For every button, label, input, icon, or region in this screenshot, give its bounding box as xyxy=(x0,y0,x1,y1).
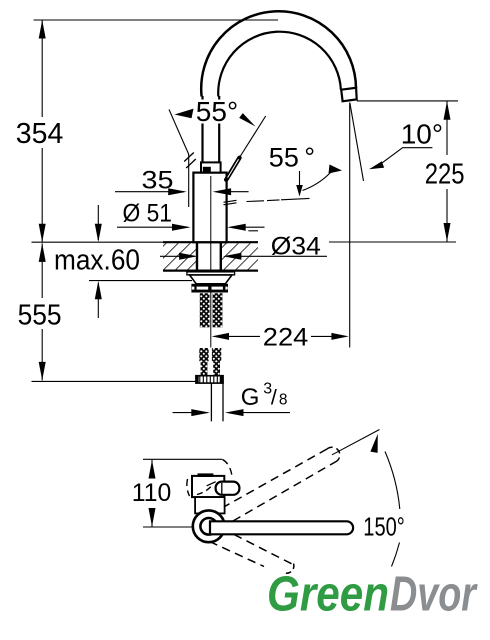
dimension 225 top extension line xyxy=(357,100,458,102)
counter deck top line xyxy=(163,241,258,243)
arrow 555 top xyxy=(39,243,46,262)
150-degree limit line xyxy=(332,430,380,455)
deck reference line left thin xyxy=(32,241,164,243)
svg-text:110: 110 xyxy=(132,479,172,507)
dimension G3/8 left xyxy=(173,412,208,414)
angle 55 (spout) down leader xyxy=(299,171,301,186)
angle 55 (handle) left arrowhead xyxy=(175,109,194,119)
svg-text:224: 224 xyxy=(263,323,309,351)
braided hose lower left xyxy=(199,348,208,361)
braided hose upper right xyxy=(213,293,223,327)
svg-text:Dvor: Dvor xyxy=(390,568,478,622)
svg-text:10°: 10° xyxy=(401,119,443,150)
plan spout bar xyxy=(210,521,353,534)
dimension diameter 34 line left xyxy=(160,255,195,257)
collar black mark xyxy=(203,167,211,172)
dimension G3/8 right xyxy=(225,409,244,416)
plan base circle xyxy=(193,510,225,542)
outlet 10-degree tilted line xyxy=(350,103,364,181)
hose connector nut xyxy=(196,376,223,383)
angle 55 (handle) right arrowhead xyxy=(239,113,255,126)
dimension 354 line xyxy=(41,20,43,117)
svg-text:55°: 55° xyxy=(196,96,238,127)
angle 55 (handle) left leader line xyxy=(169,110,189,155)
dimension 225 line xyxy=(446,101,448,155)
housing black top bar xyxy=(198,473,214,477)
svg-text:555: 555 xyxy=(18,300,62,332)
arrow 354 top xyxy=(39,20,46,39)
counter deck bottom line xyxy=(163,270,258,272)
arrow 555 bottom xyxy=(39,362,46,381)
spout outer arc xyxy=(201,11,356,96)
body centerline xyxy=(210,176,212,348)
spout inner arc xyxy=(218,32,341,97)
svg-text:225: 225 xyxy=(425,158,465,190)
braided hose lower right xyxy=(212,348,221,361)
stub line right of body xyxy=(248,230,258,232)
plan handle dashes xyxy=(223,460,233,480)
svg-text:Ø 51: Ø 51 xyxy=(123,200,173,228)
top extension line xyxy=(34,19,279,21)
dimension 35 line right xyxy=(213,188,232,195)
counter deck hatch right xyxy=(222,243,258,269)
svg-text:Ø34: Ø34 xyxy=(271,232,321,260)
deck reference line right thin xyxy=(329,241,456,243)
angle 55 (spout) arc xyxy=(303,172,332,191)
plan bottom extension line xyxy=(143,526,193,528)
shank through deck xyxy=(196,242,198,272)
dimension 555 line xyxy=(41,243,43,298)
svg-text:55 °: 55 ° xyxy=(269,142,315,172)
plan swivel ghost lower dashed xyxy=(234,535,295,566)
svg-text:8: 8 xyxy=(279,392,288,409)
plan handle knob xyxy=(216,482,240,495)
dimension diameter 51 line left xyxy=(117,226,188,228)
svg-text:G: G xyxy=(241,384,260,411)
svg-text:35: 35 xyxy=(142,167,174,195)
svg-text:150°: 150° xyxy=(363,513,405,541)
10-degree arrowhead xyxy=(369,161,384,169)
lower extension line (hose end) xyxy=(32,380,197,382)
plan handle housing xyxy=(192,476,224,497)
counter deck hatch left xyxy=(163,243,197,269)
dimension max.60 lower arrow xyxy=(97,283,99,318)
mounting nut black block xyxy=(191,284,228,293)
10-degree leader curve xyxy=(379,148,433,166)
150-degree arrowhead xyxy=(370,434,377,453)
lever handle xyxy=(226,158,239,180)
aerator at spout end xyxy=(341,88,357,102)
dimension 35 line left xyxy=(115,191,184,193)
handle axis line xyxy=(240,116,266,158)
dimension max.60 upper arrow xyxy=(97,205,99,240)
faucet body xyxy=(193,173,226,243)
dimension diameter 34 line right xyxy=(223,253,242,260)
svg-text:354: 354 xyxy=(16,118,64,150)
extension line with break ticks xyxy=(188,154,190,207)
dimension max.60 depth line xyxy=(89,280,192,282)
plan body column xyxy=(195,497,225,513)
dimension 110 line xyxy=(151,460,153,478)
dimension 224 line xyxy=(212,333,229,340)
outlet vertical centerline xyxy=(349,103,351,348)
G3/8 tailpipe xyxy=(210,383,212,421)
150-degree arc xyxy=(385,452,400,510)
washer plate under deck xyxy=(187,272,235,275)
swivel dash-dot reference line xyxy=(224,200,237,202)
plan swivel ghost upper dashed xyxy=(222,449,327,508)
collar under spout xyxy=(201,162,221,172)
dimension diameter 51 line right xyxy=(227,224,246,231)
svg-text:Green: Green xyxy=(267,567,389,621)
rubber cone xyxy=(190,275,233,284)
plan inner circle xyxy=(200,518,217,535)
spout vertical pipe xyxy=(201,96,203,100)
plan top extension line xyxy=(143,458,222,460)
arrow 354 bottom xyxy=(39,224,46,243)
svg-text:max.60: max.60 xyxy=(54,244,140,276)
svg-text:/: / xyxy=(271,386,277,410)
braided hose upper left xyxy=(200,293,210,327)
